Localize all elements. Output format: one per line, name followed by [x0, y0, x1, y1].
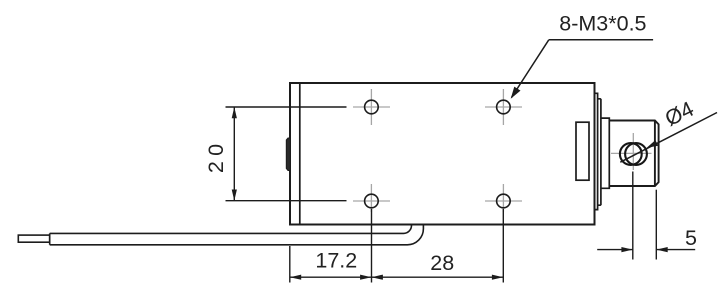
- connector bump on left edge: [286, 138, 290, 171]
- dimension 5 line right tail: [656, 249, 695, 251]
- flange strip B: [598, 99, 601, 205]
- leader 8-M3*0.5 horizontal: [549, 39, 653, 41]
- arrow 5 left: [621, 247, 632, 252]
- plunger cross hole circle right: [625, 143, 647, 165]
- dimension 5 extension line right: [655, 190, 657, 260]
- mounting hole bottom-right: [485, 184, 522, 212]
- lead wire insulation outline: [50, 224, 424, 244]
- mounting hole top-right: [485, 89, 522, 125]
- leader diameter-4 line: [620, 113, 717, 163]
- dimension 20 extension line top: [226, 106, 347, 108]
- dimension 20 extension line bottom: [226, 200, 347, 202]
- arrow 17.2 right: [360, 275, 371, 280]
- arrow 28 left: [372, 275, 383, 280]
- dimension 5 line left tail: [597, 249, 633, 251]
- arrow 17.2 left: [290, 275, 301, 280]
- svg-text:20: 20: [204, 144, 228, 173]
- dimension 20 arrow up: [232, 107, 237, 118]
- dimension line 17.2 and 28: [290, 276, 504, 278]
- plunger head outline with chamfered right corners: [609, 121, 658, 187]
- dimension extension line right (hole centre): [502, 209, 504, 283]
- leader 8-M3*0.5 arrowhead: [511, 87, 521, 99]
- dimension 17.2 extension line left: [289, 246, 291, 283]
- plunger hole centerline vertical: [632, 133, 634, 170]
- plunger chamfer line: [654, 121, 656, 187]
- solenoid body outline: [290, 83, 595, 225]
- leader diameter-4 arrowhead: [647, 140, 659, 148]
- svg-text:8-M3*0.5: 8-M3*0.5: [559, 11, 646, 35]
- svg-text:5: 5: [685, 226, 697, 250]
- dimension 5 extension line left: [632, 172, 634, 260]
- plunger cross hole circle left: [620, 143, 642, 165]
- leader 8-M3*0.5 diagonal: [512, 40, 549, 98]
- inner stopper rectangle at right end: [576, 122, 589, 180]
- arrow 28 right: [492, 275, 503, 280]
- svg-text:28: 28: [430, 251, 454, 275]
- flange strip A: [595, 93, 598, 209]
- mounting hole bottom-left: [353, 184, 390, 212]
- left flange inner line: [299, 83, 301, 225]
- plunger base lip: [601, 118, 609, 188]
- lead wire bare tip: [18, 235, 49, 242]
- dimension 20 line: [233, 107, 235, 201]
- arrow 5 right: [656, 247, 667, 252]
- svg-text:17.2: 17.2: [315, 249, 357, 273]
- plunger hole centerline horizontal: [611, 152, 652, 154]
- mounting hole top-left: [353, 89, 390, 125]
- dimension extension line mid (hole centre): [371, 209, 373, 283]
- dimension 20 arrow down: [232, 190, 237, 201]
